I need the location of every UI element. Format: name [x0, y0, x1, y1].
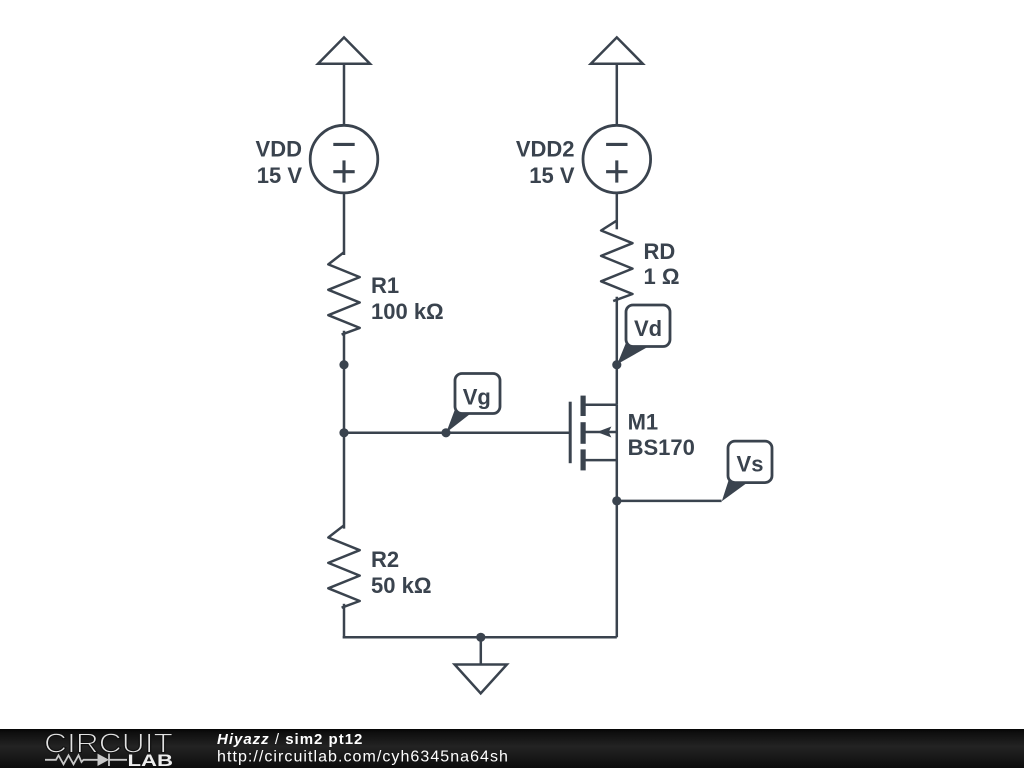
- logo diode: [98, 754, 128, 766]
- svg-text:1 Ω: 1 Ω: [644, 264, 680, 289]
- source stub: [585, 459, 617, 462]
- svg-text:http://circuitlab.com/cyh6345n: http://circuitlab.com/cyh6345na64sh: [217, 749, 509, 766]
- node dot below R1: [339, 360, 348, 369]
- channel bar middle: [581, 422, 586, 444]
- footer bar: [0, 729, 1024, 768]
- channel bar bottom: [581, 449, 586, 470]
- svg-text:Vd: Vd: [634, 316, 662, 341]
- wire: [616, 64, 619, 126]
- svg-text:R1: R1: [371, 273, 399, 298]
- wire: [616, 297, 619, 405]
- resistor R2: [328, 525, 359, 607]
- wire gate: [344, 432, 570, 435]
- svg-text:VDD: VDD: [256, 136, 302, 161]
- voltage source VDD: [310, 125, 378, 193]
- svg-text:15 V: 15 V: [529, 163, 575, 188]
- ground: [455, 637, 507, 693]
- resistor RD: [601, 221, 632, 302]
- body stub: [585, 431, 617, 434]
- wire: [343, 331, 346, 529]
- svg-text:BS170: BS170: [628, 435, 695, 460]
- node dot Vd: [612, 360, 621, 369]
- wire bottom rail: [343, 636, 617, 639]
- svg-text:Vs: Vs: [737, 452, 764, 477]
- svg-text:Hiyazz / sim2 pt12: Hiyazz / sim2 pt12: [217, 731, 363, 748]
- svg-text:50 kΩ: 50 kΩ: [371, 573, 431, 598]
- svg-text:Vg: Vg: [463, 385, 491, 410]
- node dot gate tee: [339, 428, 348, 437]
- svg-text:M1: M1: [628, 410, 659, 435]
- wire: [343, 64, 346, 126]
- channel bar top: [581, 396, 586, 416]
- svg-text:RD: RD: [644, 239, 676, 264]
- logo resistor squiggle: [45, 755, 98, 764]
- voltage source VDD2: [583, 125, 651, 193]
- wire: [343, 604, 346, 639]
- wire source to Vs: [617, 500, 722, 503]
- svg-text:VDD2: VDD2: [516, 136, 575, 161]
- node flag Vg: [446, 374, 500, 433]
- resistor R1: [328, 252, 359, 334]
- wire: [616, 193, 619, 229]
- transistor M1 (NMOS BS170): [570, 396, 617, 471]
- wire drain-source vertical: [616, 405, 619, 638]
- node flag Vs: [722, 441, 772, 501]
- power flag VDD2 (arrow symbol): [591, 37, 643, 63]
- node flag Vd: [617, 305, 670, 364]
- svg-text:LAB: LAB: [128, 751, 174, 768]
- svg-text:R2: R2: [371, 547, 399, 572]
- body arrow: [597, 427, 612, 438]
- node dot ground tee: [476, 633, 485, 642]
- node dot source: [612, 496, 621, 505]
- gate line: [569, 402, 572, 464]
- svg-text:100 kΩ: 100 kΩ: [371, 299, 444, 324]
- svg-text:15 V: 15 V: [257, 163, 303, 188]
- drain stub: [585, 404, 617, 407]
- wire: [343, 193, 346, 255]
- node dot Vg tap: [441, 428, 450, 437]
- power flag VDD (arrow symbol): [318, 37, 370, 63]
